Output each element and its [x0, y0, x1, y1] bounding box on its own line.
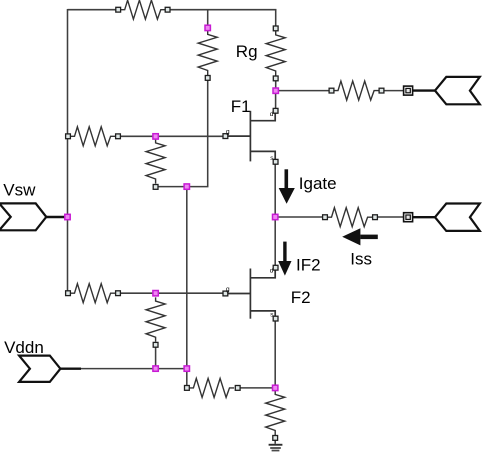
port P2 symbol right middle: [435, 204, 480, 231]
svg-text:d: d: [270, 268, 274, 275]
node M3 Rg bottom junction: [273, 88, 278, 93]
node M5 y186 junction: [184, 184, 189, 189]
arrow Igate: [279, 169, 295, 204]
pin square R3 left: [329, 88, 334, 93]
svg-text:Vsw: Vsw: [3, 180, 36, 199]
resistor R4 vertical left-top: [198, 31, 217, 75]
wire lower row to F2 gate: [118, 292, 227, 294]
resistor R2 mid row: [71, 127, 115, 146]
svg-text:Iss: Iss: [350, 249, 372, 268]
wire node to R3: [276, 90, 332, 92]
wire mid row to F1 gate: [118, 135, 227, 137]
resistor R8 bottom row: [190, 378, 234, 397]
node M4 mid row junction: [153, 134, 158, 139]
pin square F1 drain: [273, 108, 278, 113]
pin square R9 bottom: [273, 436, 278, 441]
wire long vertical x=187: [186, 187, 188, 386]
wire R5 to port P2: [375, 216, 404, 218]
resistor Rg vertical: [266, 31, 285, 75]
svg-text:F1: F1: [231, 97, 251, 116]
pin square F2 source: [273, 316, 278, 321]
pin square R1 right: [165, 7, 170, 12]
port Vddn stub: [60, 368, 81, 370]
svg-text:g: g: [226, 129, 230, 136]
pin square R4 bottom: [205, 76, 210, 81]
wire stub to node n1: [207, 9, 209, 25]
pin square R6 left: [66, 291, 71, 296]
pin square Rg top: [273, 26, 278, 31]
node M7 lower row junction: [153, 291, 158, 296]
node M2 R4 top: [205, 25, 210, 30]
svg-text:Rg: Rg: [236, 42, 258, 61]
arrow IF2: [278, 242, 291, 276]
pin square F2 drain: [273, 265, 278, 270]
transistor F2: [228, 269, 276, 319]
wire F1 source to F2 drain: [274, 162, 276, 268]
resistor R5 middle right: [328, 208, 372, 227]
resistor R7a vertical mid: [146, 139, 165, 183]
wire stub to Rg top: [275, 9, 277, 26]
svg-text:F2: F2: [291, 288, 311, 307]
node M1 Vsw junction: [65, 214, 70, 219]
resistor R9 vertical bottom: [266, 391, 285, 435]
pin square F1 gate: [223, 134, 228, 139]
wire F2 source down: [274, 319, 276, 388]
pin square R7a bottom: [153, 185, 158, 190]
wire R7 bottom to Vddn net: [155, 347, 157, 369]
resistor R6 lower row: [71, 284, 115, 303]
pin square R3 right: [379, 88, 384, 93]
resistor R1 top: [121, 0, 165, 19]
wire R8 to node: [238, 387, 276, 389]
wire R4 bottom down and left: [156, 81, 208, 187]
pin square F1 source: [273, 159, 278, 164]
port Vsw stub: [46, 216, 64, 218]
port P2 pin square: [404, 213, 413, 222]
svg-text:Igate: Igate: [299, 174, 337, 193]
pin square F2 gate: [223, 291, 228, 296]
ground: [269, 444, 283, 452]
wire node to F1 drain: [275, 91, 277, 109]
pin square R5 right: [373, 215, 378, 220]
port Vsw symbol: [0, 203, 46, 230]
wire R3 to port P1: [382, 90, 405, 92]
wire left vertical: [67, 9, 69, 293]
wire Vddn horizontal: [81, 368, 187, 370]
resistor R3 upper right: [334, 81, 378, 100]
svg-text:d: d: [270, 111, 274, 118]
pin square R5 left: [323, 215, 328, 220]
svg-text:IF2: IF2: [296, 255, 321, 274]
pin square R7b bottom: [153, 342, 158, 347]
wire R9 bottom to ground: [274, 438, 276, 444]
port P2 stub: [413, 216, 436, 218]
pin square R8 right: [235, 386, 240, 391]
wire Rg bottom to node: [275, 81, 277, 91]
node M6 Igate junction: [273, 214, 278, 219]
svg-text:g: g: [226, 286, 230, 293]
svg-text:Vddn: Vddn: [4, 338, 44, 357]
pin square Rg bottom: [273, 76, 278, 81]
node M10 bottom junction: [273, 385, 278, 390]
pin square R6 right: [116, 291, 121, 296]
port P1 pin square: [404, 86, 413, 95]
port P1 symbol right top: [435, 77, 480, 104]
pin square R2 left: [66, 134, 71, 139]
wire top horizontal right of R: [170, 9, 276, 11]
pin square R1 left: [116, 7, 121, 12]
node M9 Vddn junction 2: [184, 366, 189, 371]
port Vddn symbol: [19, 356, 60, 382]
wire node to R5: [275, 216, 324, 218]
arrow Iss: [342, 228, 378, 245]
wire top horizontal left of R: [68, 9, 117, 11]
port P1 stub: [413, 89, 436, 91]
pin square R8 left: [185, 386, 190, 391]
resistor R7b vertical lower mid: [146, 297, 165, 341]
transistor F1: [228, 111, 276, 162]
pin square R2 right: [116, 134, 121, 139]
node M8 Vddn junction 1: [153, 366, 158, 371]
